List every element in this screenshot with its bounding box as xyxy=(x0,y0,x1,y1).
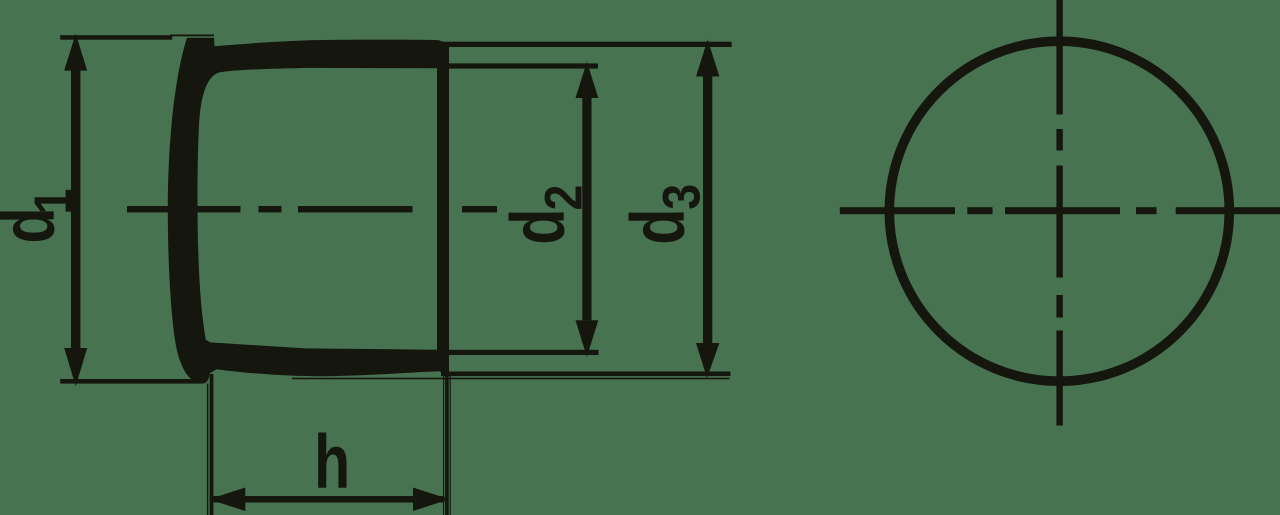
vertical centerline right view xyxy=(1056,0,1062,426)
d1 bottom extension line xyxy=(60,379,203,384)
centerline left view xyxy=(127,206,497,212)
h left extension line xyxy=(210,374,214,515)
d2 arrow up xyxy=(576,62,599,98)
svg-text:3: 3 xyxy=(652,184,711,210)
d3 bottom extension line xyxy=(441,372,731,377)
dimension d1 xyxy=(0,34,214,387)
svg-text:h: h xyxy=(314,419,350,504)
cap body silhouette (side view cross-section) xyxy=(168,38,449,384)
d1 dimension line xyxy=(71,70,80,349)
d3 dimension line xyxy=(703,77,712,344)
h arrow right xyxy=(413,488,449,512)
extra bottom thin line xyxy=(292,378,730,380)
d2 arrow down xyxy=(576,320,599,357)
circle front view xyxy=(889,41,1229,381)
h left thin line xyxy=(207,384,208,515)
svg-text:d: d xyxy=(615,208,700,244)
d1 arrow up xyxy=(64,34,87,71)
d2 top extension line xyxy=(440,63,598,68)
d3 arrow down xyxy=(696,343,719,378)
h dimension line xyxy=(214,496,445,503)
d2 dimension line xyxy=(582,98,591,320)
svg-text:1: 1 xyxy=(23,189,82,215)
h right extension line xyxy=(443,376,444,515)
dimension d2 xyxy=(440,62,599,357)
d1 arrow down xyxy=(64,348,87,386)
dimension d3 xyxy=(292,40,732,380)
svg-text:2: 2 xyxy=(534,185,593,211)
d3 arrow up xyxy=(696,40,719,77)
d1 top extension line xyxy=(60,35,172,40)
horizontal centerline right view xyxy=(840,207,1280,214)
d3 top extension line xyxy=(440,42,732,47)
svg-text:d: d xyxy=(495,208,580,244)
d2 bottom extension line xyxy=(440,350,599,355)
h arrow left xyxy=(209,488,246,512)
dimension h xyxy=(207,374,451,515)
